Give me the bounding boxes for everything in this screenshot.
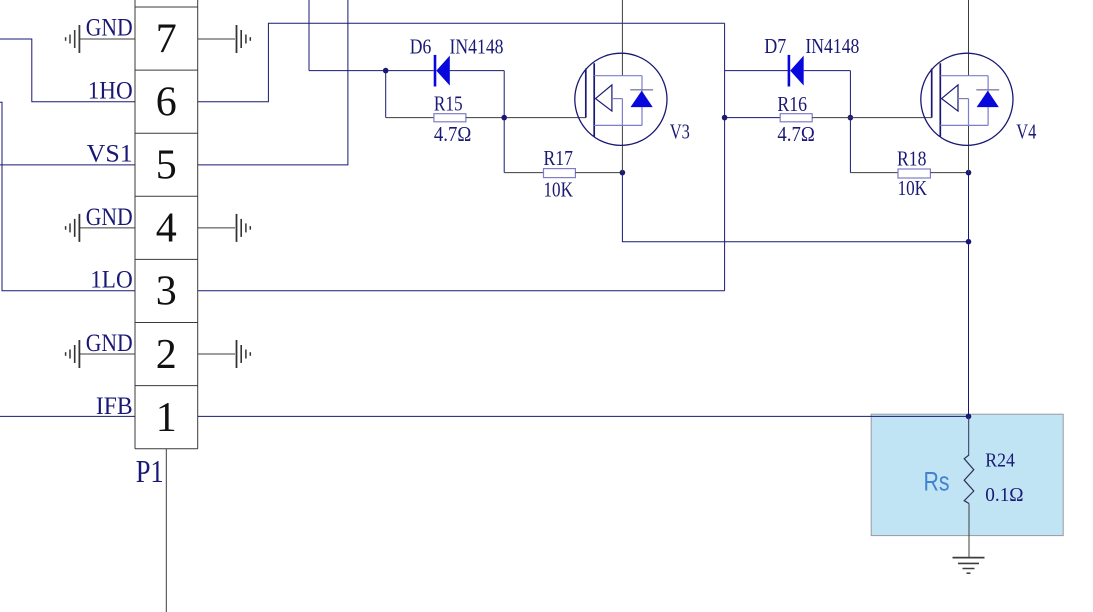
node dot R16 right — [848, 115, 854, 121]
resistor R18 — [898, 169, 930, 178]
highlight box around Rs — [871, 414, 1063, 535]
node dot R15/R17 — [501, 115, 507, 121]
diode D7 — [788, 55, 804, 87]
wire VS1 from left edge — [0, 164, 135, 166]
svg-text:D6: D6 — [410, 35, 432, 59]
svg-text:1LO: 1LO — [90, 267, 133, 294]
svg-text:R16: R16 — [777, 92, 807, 116]
wire Rs bottom lead — [968, 504, 970, 559]
wire V3 drain vertical — [621, 0, 623, 76]
pin 1 bottom lead wire — [165, 449, 167, 612]
svg-text:4: 4 — [156, 206, 177, 252]
ground symbol pin2 right — [237, 340, 251, 368]
wire pin6 1HO to top rail — [198, 23, 725, 102]
svg-text:P1: P1 — [136, 453, 164, 489]
wire V4 drain vertical — [968, 0, 970, 76]
wire V3 source to V4 source — [622, 173, 968, 242]
svg-text:2: 2 — [156, 332, 177, 378]
ground symbol pin7 left — [66, 25, 80, 53]
svg-text:R17: R17 — [544, 146, 573, 170]
wire pin7 right stub — [198, 38, 235, 40]
svg-text:4.7Ω: 4.7Ω — [434, 122, 471, 146]
wire pin4 right stub — [198, 227, 235, 229]
node dot R16 left — [722, 115, 728, 121]
wire D6 anode row — [309, 70, 434, 72]
svg-text:4.7Ω: 4.7Ω — [777, 122, 814, 146]
wire V4 source down to Rs — [968, 173, 970, 417]
svg-text:3: 3 — [156, 269, 177, 315]
wire R17 right lead — [575, 172, 622, 174]
node dot at V4 source x bottom rail — [966, 239, 972, 245]
svg-text:IFB: IFB — [96, 393, 133, 420]
svg-text:VS1: VS1 — [87, 141, 133, 168]
wire D6 feed vertical — [308, 0, 310, 71]
wire riser D6row to R15 row — [385, 71, 387, 118]
wire Rs top lead — [968, 416, 970, 455]
wire GND pin2 left — [79, 353, 135, 355]
wire riser x=504.2 — [503, 71, 505, 173]
ground symbol pin4 left — [66, 214, 80, 242]
svg-text:GND: GND — [86, 330, 133, 357]
ground symbol bottom — [953, 558, 985, 574]
wire V4 source vertical black — [968, 125, 970, 172]
wire VS1 right riser — [198, 0, 348, 165]
svg-text:GND: GND — [86, 15, 133, 42]
svg-text:V4: V4 — [1016, 119, 1036, 143]
wire 1HO from left edge — [0, 39, 135, 102]
ground symbol pin4 right — [237, 214, 251, 242]
transistor V4 — [921, 53, 1013, 145]
wire GND pin4 left — [79, 227, 135, 229]
connector P1 body — [135, 0, 198, 449]
wire R15 left lead — [386, 117, 434, 119]
node dot R18/V4 source — [966, 170, 972, 176]
wire 1LO right to main vertical — [198, 290, 725, 292]
wire IFB right to Rs node — [198, 415, 969, 417]
svg-text:IN4148: IN4148 — [805, 34, 859, 58]
svg-text:10K: 10K — [898, 176, 927, 200]
node dot IFB/Rs — [966, 414, 972, 420]
svg-text:GND: GND — [86, 204, 133, 231]
svg-text:IN4148: IN4148 — [450, 35, 504, 59]
wire D7 anode row — [725, 70, 788, 72]
svg-text:R15: R15 — [434, 92, 463, 116]
resistor R17 — [544, 169, 576, 178]
wire R16 right lead to V4 gate — [812, 117, 932, 119]
wire V3 source vertical — [621, 125, 623, 172]
wire main vertical x=724.6 — [724, 23, 726, 291]
svg-text:6: 6 — [156, 79, 177, 125]
wire D6 cathode to riser — [450, 70, 504, 72]
wire IFB from left edge — [0, 415, 135, 417]
wire pin2 right stub — [198, 353, 235, 355]
resistor R15 — [434, 114, 466, 122]
diode D6 — [434, 55, 450, 87]
wire R17 left lead — [504, 172, 543, 174]
wire riser x=850.4 — [849, 71, 851, 173]
svg-text:D7: D7 — [764, 34, 786, 58]
svg-text:Rs: Rs — [924, 466, 950, 496]
ground symbol pin7 right — [237, 25, 251, 53]
wire D7 cathode to riser — [804, 70, 851, 72]
svg-text:V3: V3 — [670, 119, 690, 143]
svg-text:5: 5 — [156, 143, 177, 189]
transistor V3 — [575, 53, 667, 145]
wire R15 right lead to V3 gate — [466, 117, 586, 119]
svg-text:0.1Ω: 0.1Ω — [985, 484, 1023, 506]
svg-text:1HO: 1HO — [88, 78, 133, 105]
svg-text:R18: R18 — [897, 146, 926, 170]
wire R18 right lead — [930, 172, 968, 174]
node dot D6 row — [383, 68, 389, 74]
svg-text:1: 1 — [156, 395, 177, 441]
wire GND pin7 left — [79, 38, 135, 40]
resistor R24 zigzag — [964, 455, 974, 504]
svg-text:10K: 10K — [544, 177, 573, 201]
wire 1LO from left edge — [0, 102, 135, 291]
svg-text:R24: R24 — [985, 450, 1015, 472]
svg-text:7: 7 — [156, 16, 177, 62]
node dot R17/V3 source — [620, 170, 626, 176]
wire R16 left lead — [725, 117, 781, 119]
wire R18 left lead — [850, 172, 898, 174]
ground symbol pin2 left — [66, 340, 80, 368]
resistor R16 — [780, 114, 812, 122]
